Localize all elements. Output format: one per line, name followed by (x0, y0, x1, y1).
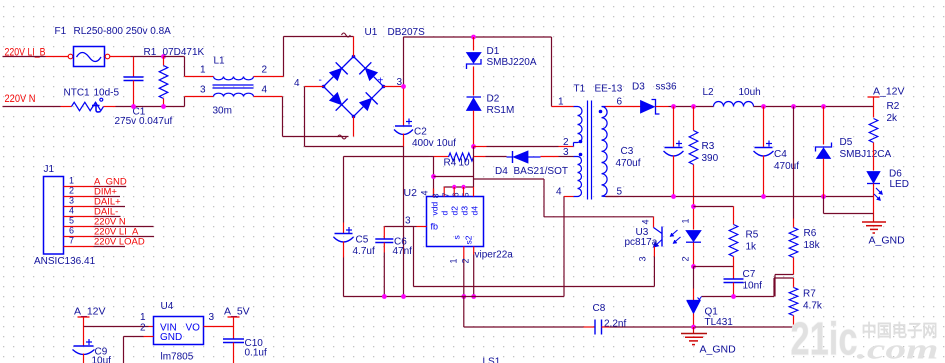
svg-text:EE-13: EE-13 (595, 84, 623, 95)
svg-text:C5: C5 (356, 235, 369, 246)
svg-text:C7: C7 (743, 269, 756, 280)
wire opto emitter (653, 247, 655, 257)
svg-text:D4: D4 (495, 166, 508, 177)
svg-text:2.2nf: 2.2nf (604, 319, 626, 330)
svg-text:10uf: 10uf (92, 356, 112, 363)
capacitor C2 (403, 89, 405, 126)
svg-text:1: 1 (69, 176, 74, 186)
svg-text:4: 4 (556, 187, 562, 198)
svg-text:4: 4 (69, 206, 74, 216)
svg-text:3: 3 (200, 85, 206, 96)
connector J1 (44, 177, 64, 255)
svg-text:2: 2 (681, 257, 691, 262)
svg-text:7: 7 (69, 236, 74, 246)
wire bridge plus (403, 37, 405, 87)
diode D2 (467, 96, 482, 98)
svg-text:DB207S: DB207S (388, 27, 426, 38)
pin 5 wire (606, 196, 619, 198)
resistor R7 (793, 278, 795, 288)
capacitor C10 (233, 327, 235, 340)
svg-text:2k: 2k (887, 113, 899, 124)
capacitor C1 (133, 57, 135, 78)
svg-text:-: - (319, 75, 322, 86)
pin vdd (433, 189, 435, 197)
pin s2 (473, 247, 475, 255)
node junction D5 top (821, 104, 826, 109)
wire R4 left to vdd (433, 157, 435, 197)
LED arrows (876, 188, 883, 195)
node junction vdd (431, 174, 436, 179)
wire s to C8 (463, 297, 465, 328)
svg-text:viper22a: viper22a (475, 250, 514, 261)
svg-text:J1: J1 (44, 164, 55, 175)
svg-text:T1: T1 (574, 84, 586, 95)
optocoupler U3 transistor (661, 227, 663, 247)
svg-text:470uf: 470uf (616, 158, 641, 169)
svg-text:fb: fb (431, 222, 439, 232)
wire drain bus (444, 186, 473, 188)
svg-text:5: 5 (461, 192, 471, 197)
pin 3 wire (64, 206, 94, 208)
svg-text:vdd: vdd (430, 202, 440, 216)
svg-text:C8: C8 (593, 303, 606, 314)
svg-text:RL250-800 250v 0.8A: RL250-800 250v 0.8A (74, 26, 172, 37)
svg-text:ss36: ss36 (656, 82, 678, 93)
svg-text:4: 4 (420, 191, 430, 196)
svg-text:47nf: 47nf (393, 246, 413, 257)
wire (116, 106, 185, 108)
ground A_GND right (873, 214, 875, 222)
svg-text:U2: U2 (404, 187, 418, 199)
node junction R1 bottom (161, 104, 166, 109)
svg-text:8: 8 (431, 193, 441, 198)
wire vdd branch (344, 156, 429, 158)
svg-text:D2: D2 (487, 94, 500, 105)
optocoupler U3 LED (686, 231, 701, 242)
svg-text:R2: R2 (887, 101, 900, 112)
svg-text:1: 1 (200, 65, 206, 76)
svg-text:d4: d4 (470, 206, 480, 216)
svg-text:400v 10uf: 400v 10uf (412, 138, 456, 149)
node junction R1 top (161, 54, 166, 59)
bridge pin 4 - (305, 86, 324, 88)
svg-text:1: 1 (140, 312, 146, 323)
wire vo (204, 326, 234, 328)
pin d3 (473, 187, 475, 197)
node junction R6 top (791, 104, 796, 109)
svg-text:220V N: 220V N (5, 93, 36, 105)
resistor R4 (429, 156, 434, 158)
svg-text:1: 1 (449, 259, 459, 264)
svg-text:d2: d2 (450, 206, 460, 216)
svg-text:5: 5 (617, 187, 623, 198)
diode D3 (641, 101, 655, 114)
svg-text:A_5V: A_5V (224, 306, 250, 318)
pin 6 wire (606, 106, 641, 108)
node junction C4 bottom (761, 194, 766, 199)
capacitor C3 (673, 107, 675, 148)
node junction D5 bottom (821, 194, 826, 199)
svg-text:3: 3 (209, 312, 215, 323)
svg-text:BAS21/SOT: BAS21/SOT (514, 166, 568, 177)
wire T1 pin4 drop (563, 197, 565, 297)
svg-text:s: s (452, 235, 462, 239)
svg-text:2: 2 (140, 323, 146, 334)
svg-text:3: 3 (405, 216, 411, 227)
wire opto collector (564, 216, 654, 218)
svg-text:1: 1 (558, 97, 564, 108)
wire gnd to R7 (695, 326, 794, 328)
svg-text:TL431: TL431 (705, 317, 734, 328)
svg-text:6: 6 (69, 226, 74, 236)
node junction node B (691, 264, 696, 269)
svg-text:4: 4 (262, 85, 268, 96)
svg-text:2: 2 (461, 259, 471, 264)
svg-text:GND: GND (160, 332, 182, 343)
wire gnd pin2 (144, 336, 154, 338)
capacitor C7 (733, 267, 735, 280)
pin 4 wire (64, 216, 94, 218)
wire 12V rail right (754, 106, 874, 108)
pin 1 wire (64, 186, 94, 188)
wire (3, 56, 46, 58)
svg-text:D1: D1 (487, 46, 500, 57)
svg-text:d: d (440, 211, 450, 216)
svg-text:F1: F1 (55, 26, 67, 37)
node junction R3 top (691, 104, 696, 109)
svg-text:U4: U4 (161, 301, 174, 312)
svg-text:4.7k: 4.7k (803, 301, 823, 312)
svg-text:2: 2 (262, 65, 268, 76)
svg-text:18k: 18k (804, 240, 821, 251)
svg-text:0.1uf: 0.1uf (245, 348, 267, 359)
svg-text:D6: D6 (889, 169, 902, 180)
capacitor C9 (83, 327, 85, 347)
node junction C3 bottom (671, 194, 676, 199)
svg-text:A_12V: A_12V (74, 306, 106, 318)
wire fb to opto (413, 227, 415, 287)
pin 4 wire (564, 196, 574, 198)
svg-text:A_12V: A_12V (873, 86, 905, 98)
svg-text:lm7805: lm7805 (161, 352, 194, 363)
svg-text:10uh: 10uh (739, 87, 761, 98)
svg-text:A_GND: A_GND (869, 235, 906, 247)
resistor R3 (693, 107, 695, 131)
svg-text:.com: .com (857, 335, 939, 363)
wire secondary gnd rail (606, 196, 874, 198)
node junction Q1 anode (691, 325, 696, 330)
shunt regulator Q1 TL431 (687, 300, 701, 302)
wire D1 to D2 (473, 67, 475, 96)
svg-text:220V LOAD: 220V LOAD (94, 237, 145, 248)
wire top rail to T1 pin1 (404, 36, 552, 38)
svg-text:SMBJ12CA: SMBJ12CA (840, 149, 892, 160)
svg-text:R6: R6 (804, 228, 817, 239)
pin fb (417, 226, 427, 228)
fuse F1 (46, 56, 69, 58)
pin 2 wire (64, 196, 94, 198)
svg-text:4: 4 (294, 78, 300, 89)
svg-text:1: 1 (681, 219, 691, 224)
svg-text:D5: D5 (840, 137, 853, 148)
svg-text:U1: U1 (365, 27, 378, 38)
wire (110, 56, 131, 58)
node junction s (461, 294, 466, 299)
svg-text:7: 7 (441, 192, 451, 197)
phase dot (579, 153, 583, 157)
resistor R1 varistor (163, 57, 165, 66)
svg-text:5: 5 (69, 216, 74, 226)
wire T1 pin2 net (474, 146, 487, 148)
node junction anode (691, 204, 696, 209)
svg-text:C2: C2 (414, 127, 427, 138)
svg-text:Q1: Q1 (705, 307, 719, 318)
node junction D2 R4 (471, 144, 476, 149)
wire node B (694, 266, 734, 268)
resistor R2 (873, 107, 875, 118)
svg-text:4: 4 (641, 220, 651, 225)
svg-text:R4: R4 (444, 158, 457, 169)
svg-text:NTC1: NTC1 (64, 88, 91, 99)
wire (164, 56, 185, 58)
inductor L1 (185, 76, 214, 78)
wire (3, 106, 61, 108)
svg-text:L1: L1 (214, 56, 226, 67)
svg-text:3: 3 (638, 257, 648, 262)
svg-text:s2: s2 (464, 235, 474, 244)
svg-text:6: 6 (451, 192, 461, 197)
svg-text:390: 390 (702, 153, 719, 164)
svg-text:R5: R5 (746, 230, 759, 241)
svg-text:2: 2 (69, 186, 74, 196)
resistor R5 (729, 225, 738, 257)
node junction d3 pin (461, 185, 465, 189)
wire 12V rail (674, 106, 714, 108)
svg-text:RS1M: RS1M (487, 105, 515, 116)
svg-text:10d-5: 10d-5 (94, 88, 120, 99)
svg-text:R1: R1 (144, 47, 157, 58)
wire L1 pin2 to bridge top (254, 76, 284, 78)
node junction C4 top (761, 104, 766, 109)
capacitor C8 (584, 326, 595, 328)
svg-text:VO: VO (186, 323, 201, 334)
pin s (463, 247, 465, 259)
wire vin (84, 326, 149, 328)
wire C2 bottom long vertical (403, 147, 405, 297)
svg-text:d3: d3 (460, 206, 470, 216)
winding stub pin2 (573, 143, 575, 147)
svg-text:R3: R3 (702, 141, 715, 152)
node junction C7 ref (731, 294, 736, 299)
svg-text:C4: C4 (774, 149, 787, 160)
capacitor C6 (383, 227, 385, 240)
resistor R6 (793, 219, 795, 228)
svg-text:10nf: 10nf (743, 281, 763, 292)
svg-text:C3: C3 (621, 146, 634, 157)
svg-text:L2: L2 (703, 87, 715, 98)
wire vdd cross (434, 176, 474, 178)
pin d1 (453, 187, 455, 197)
node junction bridge plus C2 (401, 84, 406, 89)
diode D1 TVS (473, 37, 475, 51)
bridge pin1 top wire (353, 37, 355, 57)
pin d2 (463, 187, 465, 197)
wire node A to R5 (694, 206, 734, 208)
svg-text:07D471K: 07D471K (163, 47, 205, 58)
svg-text:D3: D3 (632, 82, 645, 93)
pin 5 wire (64, 226, 94, 228)
bridge pin2 bottom wire (353, 117, 355, 137)
node junction C2 gnd (401, 294, 406, 299)
svg-text:1k: 1k (746, 242, 758, 253)
node junction s2 (471, 294, 476, 299)
pin d0 (443, 187, 445, 197)
svg-text:SMBJ220A: SMBJ220A (487, 57, 537, 68)
phase dot (599, 110, 603, 114)
wire primary gnd rail (344, 296, 565, 298)
svg-text:+: + (378, 76, 384, 87)
LED D6 (867, 172, 880, 184)
ground A_GND bottom (693, 327, 695, 334)
wire drain to T1 pin4 (474, 178, 545, 180)
node junction C3 top (671, 104, 676, 109)
svg-text:LS1: LS1 (483, 357, 501, 363)
wire fb net (384, 226, 413, 228)
opto light arrows (670, 230, 678, 237)
IC U2 viper22a (427, 197, 484, 247)
svg-text:470uf: 470uf (774, 161, 799, 172)
node junction d2 pin (452, 185, 456, 189)
phase dot (579, 140, 583, 144)
capacitor C5 (343, 223, 345, 234)
svg-text:6: 6 (617, 97, 623, 108)
diode D4 (474, 156, 486, 158)
node junction C1 bottom (131, 104, 136, 109)
svg-text:21ic: 21ic (791, 313, 858, 363)
wire opto anode (693, 207, 695, 230)
inductor L2 (714, 102, 754, 107)
thermistor NTC1 (61, 106, 72, 108)
svg-text:pc817a: pc817a (625, 237, 658, 248)
diode D5 TVS (823, 107, 825, 145)
capacitor C4 (763, 107, 765, 148)
svg-text:30m: 30m (213, 106, 232, 117)
pin 7 wire (64, 246, 94, 248)
svg-text:3: 3 (563, 147, 569, 158)
wire L1 pin4 to bridge bottom (254, 96, 283, 98)
svg-text:LED: LED (890, 179, 909, 190)
svg-text:A_GND: A_GND (700, 344, 737, 356)
wire Q1 cathode (693, 267, 695, 289)
IC U4 lm7805 (154, 317, 204, 345)
node junction D1 top (471, 35, 476, 40)
svg-text:4.7uf: 4.7uf (353, 246, 375, 257)
wire drain chain (473, 147, 475, 188)
svg-text:3: 3 (69, 196, 74, 206)
svg-text:10: 10 (459, 158, 471, 169)
svg-text:275v 0.047uf: 275v 0.047uf (115, 116, 173, 127)
svg-text:R7: R7 (803, 289, 816, 300)
svg-text:ANSIC136.41: ANSIC136.41 (34, 256, 96, 267)
wire R6 feed (793, 107, 795, 219)
bridge pin 3 + (384, 86, 404, 88)
ref line (702, 296, 735, 298)
node junction C6 gnd (382, 294, 387, 299)
wire bridge minus rail (304, 87, 306, 147)
wire D6 to gnd (823, 197, 825, 214)
pin 6 wire (64, 236, 94, 238)
